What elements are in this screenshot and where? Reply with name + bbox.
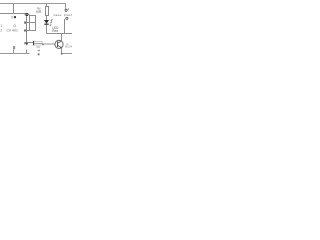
resistor R2 body faint outline xyxy=(34,42,42,46)
node pin tick 3 xyxy=(24,29,25,31)
capacitor C2 bottom left xyxy=(13,46,15,49)
svg-text:C0 401: C0 401 xyxy=(6,28,18,32)
wire collector rail xyxy=(47,33,73,35)
wire collector drop xyxy=(61,34,63,41)
wire base left xyxy=(27,42,34,44)
resistor R2 label faint xyxy=(37,46,40,48)
node resistor right nub xyxy=(42,43,44,45)
resistor R1 body xyxy=(46,7,49,16)
IC U1 divider xyxy=(30,22,36,24)
wire bottom ground rail left segment xyxy=(0,53,30,55)
resistor R2 left bar xyxy=(33,41,35,46)
svg-text:base: Flashe: base: Flashe xyxy=(54,13,72,17)
svg-text:BC54: BC54 xyxy=(65,45,72,49)
node junction dot base xyxy=(26,42,28,44)
node pin tick 4 xyxy=(24,42,25,44)
wire pin tap 3 xyxy=(25,30,30,32)
wire resistor top lead xyxy=(46,4,48,7)
wire bottom ground rail right segment xyxy=(62,53,73,55)
wire resistor bottom lead xyxy=(46,16,48,21)
node pin tick 2 xyxy=(24,22,25,24)
transistor Q1 circle xyxy=(55,40,63,48)
svg-text:1: 1 xyxy=(0,24,2,28)
wire IC pin bus xyxy=(26,14,28,46)
IC U1 box xyxy=(30,16,36,31)
node emitter-ground junction xyxy=(61,53,63,55)
wire base right xyxy=(44,43,56,45)
svg-text:2: 2 xyxy=(0,28,2,32)
wire LED cathode down xyxy=(46,25,48,34)
wire bus lower segment xyxy=(26,50,28,54)
transistor Q1 emitter stroke with arrow xyxy=(58,45,62,48)
transistor Q1 base bar xyxy=(57,42,59,48)
wire battery negative down xyxy=(64,19,66,34)
wire top positive rail xyxy=(0,4,66,10)
battery positive terminal circle xyxy=(65,9,67,11)
wire through resistor xyxy=(34,43,42,45)
svg-text:Red: Red xyxy=(52,29,58,33)
wire left drop from top rail xyxy=(13,4,15,14)
LED D1 light arrows xyxy=(50,19,53,26)
wire emitter to ground xyxy=(61,48,63,54)
wire capacitor to ground rail xyxy=(13,50,15,54)
wire pin tap 2 xyxy=(25,22,30,24)
transistor Q1 collector stroke xyxy=(58,41,62,44)
node pin label 1 and dot xyxy=(11,16,13,19)
node junction blob top xyxy=(26,13,29,16)
battery negative terminal circle xyxy=(66,17,68,19)
wire second rail xyxy=(0,13,27,15)
wire pin tap 1 xyxy=(25,14,30,16)
LED D1 triangle xyxy=(44,20,49,24)
svg-text:KiR: KiR xyxy=(36,10,42,14)
node label marks below gap xyxy=(38,50,40,52)
battery plus mark xyxy=(68,8,69,9)
LED D1 cathode bar xyxy=(44,23,48,25)
